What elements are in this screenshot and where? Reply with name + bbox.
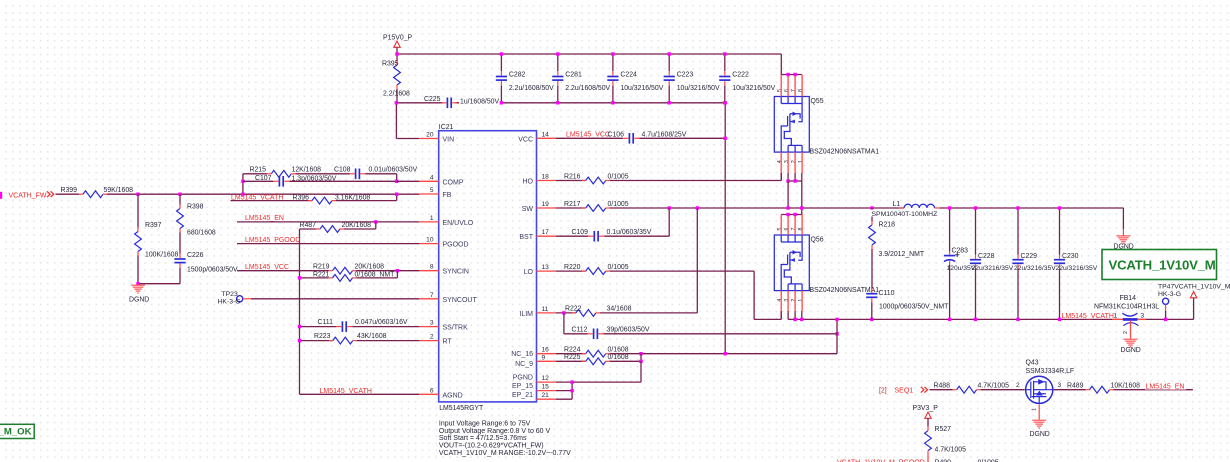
net label LM5145_EN (right) <box>1145 383 1186 390</box>
svg-text:Output Voltage Range:0.8 V to: Output Voltage Range:0.8 V to 60 V <box>439 428 551 435</box>
junction PGND riser join <box>724 352 727 355</box>
svg-text:7: 7 <box>791 89 797 92</box>
resistor R218 zigzag <box>869 225 876 245</box>
junction DGND node <box>136 282 139 285</box>
svg-text:C226: C226 <box>187 252 204 259</box>
svg-text:1: 1 <box>798 299 804 302</box>
wire NC9 b <box>610 360 641 362</box>
svg-text:1u/1608/50V: 1u/1608/50V <box>460 98 499 105</box>
wire Q55 source to SW <box>787 181 789 208</box>
wire output negative rail <box>788 318 1194 320</box>
svg-text:4: 4 <box>430 174 434 181</box>
svg-text:2: 2 <box>430 334 434 341</box>
capacitor C225 symbol <box>446 98 448 109</box>
wire VCATH rail <box>299 229 301 394</box>
wire NC9 a <box>556 360 586 362</box>
svg-text:10K/1608: 10K/1608 <box>1111 382 1141 389</box>
junction R222 riser on SW <box>696 206 699 209</box>
svg-text:RT: RT <box>443 339 453 346</box>
svg-text:5: 5 <box>430 187 434 194</box>
wire P3V3 stub <box>927 418 929 426</box>
junction C110 bottom <box>870 318 873 321</box>
wire C228 top stub <box>975 208 977 255</box>
svg-text:C225: C225 <box>424 96 441 103</box>
ground DGND (Q43) <box>1032 419 1046 421</box>
wire C112 a <box>564 333 588 335</box>
svg-text:LM5145_VCC: LM5145_VCC <box>566 131 610 138</box>
wire LO b <box>610 270 754 272</box>
junction snubber on SW <box>870 206 873 209</box>
svg-text:1000p/0603/50V_NMT: 1000p/0603/50V_NMT <box>879 304 949 311</box>
junction R397 top <box>136 193 139 196</box>
wire C110 bottom <box>871 303 873 320</box>
svg-text:2: 2 <box>791 299 797 302</box>
svg-text:BSZ042N06NSATMA1: BSZ042N06NSATMA1 <box>810 148 880 155</box>
pin 20 VIN stub <box>419 138 438 140</box>
wire C222 bottom stub <box>724 85 726 102</box>
junction Q56 src c <box>800 318 803 321</box>
svg-text:Q43: Q43 <box>1026 359 1039 366</box>
wire Q55 source/gate pin stub <box>787 152 789 173</box>
svg-text:1: 1 <box>1032 408 1038 411</box>
wire R395 to C225 node <box>396 102 443 104</box>
capacitor C106 <box>628 133 630 144</box>
svg-text:R220: R220 <box>564 264 581 271</box>
wire R527 down stub <box>927 455 929 462</box>
svg-text:10u/3216/50V: 10u/3216/50V <box>732 85 775 92</box>
wire SYNCOUT line <box>251 298 419 300</box>
svg-text:R396: R396 <box>293 194 310 201</box>
svg-text:ILIM: ILIM <box>519 311 533 318</box>
svg-text:5: 5 <box>777 227 783 230</box>
svg-text:[2]: [2] <box>879 388 887 395</box>
svg-text:NFM31KC104R1H3L: NFM31KC104R1H3L <box>1094 304 1159 311</box>
svg-text:20K/1608: 20K/1608 <box>342 222 372 229</box>
pin 8 SYNCIN stub <box>419 270 438 272</box>
svg-text:0/1005: 0/1005 <box>608 201 629 208</box>
junction EP riser join <box>639 360 642 363</box>
wire EN line <box>237 221 419 223</box>
junction EP15 <box>570 380 573 383</box>
wire NC16 b (PGND line) <box>610 353 837 355</box>
wire R218 to C110 <box>871 249 873 289</box>
svg-text:8: 8 <box>430 264 434 271</box>
svg-text:C229: C229 <box>1021 253 1038 260</box>
capacitor C108 <box>355 169 357 180</box>
svg-text:LO: LO <box>524 269 534 276</box>
svg-text:C230: C230 <box>1062 253 1079 260</box>
wire C230 top stub <box>1059 208 1061 255</box>
svg-text:VOUT=-(10.2-0.629*VCATH_FW): VOUT=-(10.2-0.629*VCATH_FW) <box>439 443 544 450</box>
ground DGND (FB14) <box>1124 338 1138 340</box>
wire Q55 drain pin stub <box>780 75 782 97</box>
svg-text:TP23: TP23 <box>222 291 238 298</box>
wire PGND to output rail <box>836 319 838 353</box>
svg-text:3: 3 <box>784 160 790 163</box>
wire R398 upper <box>179 194 181 204</box>
pin 5 FB stub <box>419 193 438 195</box>
svg-text:4.7u/1608/25V: 4.7u/1608/25V <box>642 131 687 138</box>
junction R398 top <box>178 193 181 196</box>
wire ILIM b <box>600 312 697 314</box>
junction C223 bottom <box>668 101 671 104</box>
wire C281 bottom stub <box>557 85 559 102</box>
wire C223 bottom stub <box>668 85 670 102</box>
junction C112 tee <box>562 311 565 314</box>
wire R489 to EN net <box>1114 389 1193 391</box>
svg-text:1500p/0603/50V: 1500p/0603/50V <box>187 267 238 274</box>
svg-text:8: 8 <box>798 227 804 230</box>
wire ILIM a <box>556 312 576 314</box>
junction C228 bottom <box>974 318 977 321</box>
resistor R398 zigzag <box>177 209 184 229</box>
capacitor C222 <box>719 76 730 78</box>
node VCATH_1V10V_M output box <box>1102 250 1217 280</box>
wire R397 upper <box>137 194 139 227</box>
svg-text:0.047u/0603/16V: 0.047u/0603/16V <box>355 319 408 326</box>
svg-text:R216: R216 <box>564 173 581 180</box>
junction SW at Q55 <box>786 206 789 209</box>
capacitor C224 <box>607 76 618 78</box>
junction C283 bottom <box>948 318 951 321</box>
ferrite bead FB14 body bar <box>1123 318 1138 321</box>
wire Q56 src join b <box>794 311 796 319</box>
capacitor C228 <box>970 259 981 261</box>
resistor R224 <box>586 350 606 357</box>
svg-text:2.2u/1608/50V: 2.2u/1608/50V <box>565 85 610 92</box>
pin 1 EN/UVLO stub <box>419 221 438 223</box>
ground DGND (input divider) <box>131 284 145 286</box>
resistor R395 zigzag <box>394 65 401 85</box>
pin 3 SS/TRK stub <box>419 326 438 328</box>
node VCATH_FW sheet entry <box>0 192 2 199</box>
svg-text:0.01u/0603/50V: 0.01u/0603/50V <box>369 166 418 173</box>
pin 19 SW stub <box>537 207 557 209</box>
svg-text:6: 6 <box>784 227 790 230</box>
svg-text:680/1608: 680/1608 <box>187 230 216 237</box>
svg-text:NC_9: NC_9 <box>515 361 533 368</box>
svg-text:R218: R218 <box>879 222 896 229</box>
wire Q55 src stub join b <box>794 173 796 181</box>
svg-text:17: 17 <box>542 229 550 236</box>
wire Q55 source/gate pin stub <box>780 152 782 173</box>
wire R396 riser <box>396 194 398 200</box>
svg-text:2: 2 <box>791 160 797 163</box>
wire BST a <box>556 235 588 237</box>
svg-text:SPM10040T-100MHZ: SPM10040T-100MHZ <box>872 211 938 218</box>
wire Q43 to R489 <box>1054 389 1086 391</box>
wire C112 b <box>604 333 838 335</box>
junction C283 top <box>948 206 951 209</box>
wire C283 top stub <box>949 208 951 251</box>
junction TP47 <box>1164 318 1167 321</box>
svg-text:R395: R395 <box>382 61 399 68</box>
power triangle VCATH_1V10V_M <box>1190 292 1196 298</box>
svg-text:22u/3216/35V: 22u/3216/35V <box>1056 265 1098 272</box>
resistor R527 zigzag <box>925 431 932 451</box>
resistor R396 <box>312 197 332 204</box>
svg-text:R488: R488 <box>934 382 951 389</box>
svg-text:SS/TRK: SS/TRK <box>443 325 469 332</box>
wire C224 bottom stub <box>612 85 614 102</box>
wire Q56 src join c <box>801 311 803 319</box>
svg-text:9: 9 <box>542 354 546 361</box>
wire SEQ1 to R488 <box>930 389 953 391</box>
junction Q55 drain c <box>793 73 796 76</box>
resistor R216 <box>586 177 606 184</box>
wire comp right vertical <box>396 174 398 182</box>
svg-text:LM5145_EN: LM5145_EN <box>245 215 284 222</box>
wire Q43 source drop <box>1038 404 1040 419</box>
capacitor C112 <box>593 329 595 340</box>
svg-text:VCC: VCC <box>518 136 533 143</box>
wire SSTRK right <box>352 326 419 328</box>
pin 21 EP_21 stub <box>537 398 557 400</box>
wire R487 branch right <box>344 228 376 230</box>
svg-text:3: 3 <box>784 299 790 302</box>
capacitor C111 <box>341 321 343 332</box>
svg-text:8: 8 <box>798 89 804 92</box>
capacitor C109 <box>593 231 595 242</box>
wire SSTRK left <box>300 326 337 328</box>
wire VIN bus drop to Q55 <box>780 54 782 75</box>
resistor R487 <box>320 226 340 233</box>
capacitor C230 <box>1054 259 1065 261</box>
svg-text:12K/1608: 12K/1608 <box>292 166 322 173</box>
capacitor C229 <box>1012 259 1023 261</box>
wire VCC line <box>556 137 623 139</box>
svg-text:7: 7 <box>791 227 797 230</box>
wire comp top branch c <box>366 173 397 175</box>
wire R487 branch left <box>300 228 317 230</box>
svg-text:COMP: COMP <box>443 179 464 186</box>
resistor R221 <box>333 275 353 282</box>
svg-text:HK-3-G: HK-3-G <box>218 299 241 306</box>
wire R221 branch right <box>357 277 398 279</box>
wire comp top branch b <box>295 173 349 175</box>
wire VCATH_FW to R399 <box>56 193 80 195</box>
wire rail end riser <box>1193 298 1195 320</box>
svg-text:SW: SW <box>522 206 534 213</box>
wire C223 top stub <box>668 54 670 71</box>
svg-text:VCATH_1V10V_M: VCATH_1V10V_M <box>1109 257 1216 272</box>
wire Q56 source/gate pin stub <box>794 291 796 311</box>
junction EP21 <box>570 389 573 392</box>
resistor R223 <box>333 337 353 344</box>
svg-text:1: 1 <box>798 160 804 163</box>
inductor L1 SPM10040T-100MHZ <box>904 204 934 208</box>
svg-text:C228: C228 <box>978 253 995 260</box>
junction P15V0 bus left <box>395 52 398 55</box>
wire C109 riser <box>668 208 670 236</box>
svg-text:FB14: FB14 <box>1120 295 1137 302</box>
junction C106 on riser <box>724 137 727 140</box>
svg-text:10u/3216/50V: 10u/3216/50V <box>677 85 720 92</box>
resistor R399 <box>83 191 103 198</box>
wire LO drop <box>753 271 755 319</box>
svg-text:39p/0603/50V: 39p/0603/50V <box>607 327 650 334</box>
wire Q56 src join a <box>787 311 789 319</box>
junction RT on rail <box>298 339 301 342</box>
resistor R217 <box>586 205 606 212</box>
svg-text:DGND: DGND <box>129 297 149 304</box>
svg-text:NC_16: NC_16 <box>511 351 533 358</box>
junction C282 top <box>500 52 503 55</box>
svg-text:IC21: IC21 <box>439 124 454 131</box>
pin 9 NC_9 stub <box>537 360 557 362</box>
junction R225 join <box>639 352 642 355</box>
test point TP23 <box>237 296 243 302</box>
pin 2 FB14 drop <box>1130 321 1132 339</box>
wire AGND line <box>300 393 420 395</box>
svg-text:22u/3216/35V: 22u/3216/35V <box>972 265 1014 272</box>
wire Q55 gate corner <box>780 173 782 181</box>
junction R395/VIN node <box>395 101 398 104</box>
junction C109 on SW <box>668 206 671 209</box>
wire R487 riser <box>375 222 377 229</box>
wire PGOOD line <box>237 243 419 245</box>
pin 12 PGND stub <box>537 381 557 383</box>
resistor R222 <box>576 310 596 317</box>
wire C230 bottom stub <box>1059 268 1061 319</box>
junction R221 left on rail <box>298 276 301 279</box>
junction Q56 src b <box>793 318 796 321</box>
svg-text:2: 2 <box>1123 331 1129 334</box>
svg-text:1: 1 <box>430 215 434 222</box>
resistor R489 <box>1090 386 1110 393</box>
svg-text:11: 11 <box>542 306 549 313</box>
svg-text:DGND: DGND <box>1030 431 1050 438</box>
resistor R219 <box>333 267 353 274</box>
wire R396 to FB riser <box>336 200 397 202</box>
resistor R215 <box>271 170 291 177</box>
wire C282 top stub <box>500 54 502 71</box>
svg-text:4.7K/1005: 4.7K/1005 <box>935 447 967 454</box>
wire Q55 src stub join a <box>787 173 789 181</box>
svg-text:SSM3J334R,LF: SSM3J334R,LF <box>1026 368 1075 375</box>
wire comp top branch a <box>243 173 267 175</box>
wire Q55 drain pin stub <box>794 75 796 97</box>
wire Q56 drain pin stub <box>794 215 796 236</box>
svg-text:2: 2 <box>1016 382 1020 389</box>
svg-text:C106: C106 <box>608 131 625 138</box>
svg-text:C281: C281 <box>565 71 582 78</box>
wire C281 top stub <box>557 54 559 71</box>
junction C282 bottom <box>500 101 503 104</box>
wire R395 top lead <box>396 54 398 61</box>
junction C224 top <box>611 52 614 55</box>
svg-text:R489: R489 <box>1067 382 1084 389</box>
svg-text:C224: C224 <box>620 71 637 78</box>
svg-text:4.7K/1005: 4.7K/1005 <box>978 382 1010 389</box>
wire Q56 gate corner riser <box>780 311 782 319</box>
wire R225 riser <box>640 354 642 362</box>
wire EP riser <box>640 361 642 382</box>
svg-text:C107: C107 <box>255 175 272 182</box>
wire SW a <box>556 207 586 209</box>
wire LO to Q56 gate <box>754 318 781 320</box>
pin 4 COMP stub <box>419 180 438 182</box>
wire Q56 source/gate pin stub <box>780 291 782 311</box>
node _M_OK box (left edge) <box>0 424 34 438</box>
svg-text:16: 16 <box>542 347 550 354</box>
junction C222 bottom <box>723 101 726 104</box>
capacitor C223 <box>664 76 675 78</box>
svg-text:LM5145_VCATH: LM5145_VCATH <box>1062 313 1114 320</box>
wire ground tie <box>138 283 180 285</box>
pin 10 PGOOD stub <box>419 243 438 245</box>
chevron SEQ1 <box>921 387 928 393</box>
svg-text:EP_15: EP_15 <box>512 383 533 390</box>
junction C107 left <box>241 180 244 183</box>
svg-text:2.2/1608: 2.2/1608 <box>383 91 410 98</box>
pin 18 HO stub <box>537 180 557 182</box>
wire SW to Q56 drain <box>801 181 803 215</box>
wire C226 to ground node <box>179 268 181 284</box>
junction C112 on PGND riser <box>835 332 838 335</box>
pin 11 ILIM stub <box>537 312 557 314</box>
wire R221 right riser <box>396 271 398 278</box>
wire Q56 drain pin stub <box>787 215 789 236</box>
svg-text:PGOOD: PGOOD <box>443 242 469 249</box>
wire R399 to FB line <box>107 193 419 195</box>
svg-text:BSZ042N06NSATMA1: BSZ042N06NSATMA1 <box>810 287 880 294</box>
wire EP15 line <box>556 390 572 392</box>
wire VIN feed down <box>395 103 397 139</box>
svg-text:21: 21 <box>542 392 550 399</box>
svg-text:3: 3 <box>1141 313 1145 320</box>
wire Q56 source/gate pin stub <box>787 291 789 311</box>
wire TP47 drop <box>1165 311 1167 319</box>
resistor R220 <box>586 268 606 275</box>
power triangle P15V0_P <box>394 41 400 47</box>
wire VIN feed to pin <box>396 138 419 140</box>
wire C229 top stub <box>1017 208 1019 255</box>
svg-text:R487: R487 <box>300 222 317 229</box>
svg-text:13: 13 <box>542 264 550 271</box>
svg-text:VIN: VIN <box>443 137 455 144</box>
svg-text:VCATH_1V10V_M RANGE:-10.2V~-0.: VCATH_1V10V_M RANGE:-10.2V~-0.77V <box>439 450 571 457</box>
junction SSTRK on rail <box>298 325 301 328</box>
svg-text:C112: C112 <box>572 327 588 334</box>
pin 2 RT stub <box>419 340 438 342</box>
wire PGND riser <box>724 103 726 354</box>
junction Q55 source a <box>786 179 789 182</box>
capacitor C107 <box>278 176 280 187</box>
wire R395 bottom lead <box>396 89 398 103</box>
svg-text:LM5145RGYT: LM5145RGYT <box>439 405 484 412</box>
wire R221 branch left <box>300 277 329 279</box>
wire EP21 riser <box>571 391 573 400</box>
wire VCATH to R396 <box>231 200 313 202</box>
wire C112 drop <box>563 313 565 334</box>
pin 13 LO stub <box>537 270 557 272</box>
wire SW bus <box>610 207 904 209</box>
svg-text:P3V3_P: P3V3_P <box>913 405 939 412</box>
svg-text:R224: R224 <box>564 347 581 354</box>
svg-text:R215: R215 <box>250 166 267 173</box>
wire P15V0_P stub <box>396 47 398 54</box>
wire C224 top stub <box>612 54 614 71</box>
wire HO a <box>556 180 586 182</box>
svg-text:Input Voltage Range:6 to 75V: Input Voltage Range:6 to 75V <box>439 421 531 428</box>
junction C229 top <box>1016 206 1019 209</box>
wire Q55 src stub join c <box>801 173 803 181</box>
plus mark C283 <box>955 253 959 257</box>
svg-text:C108: C108 <box>334 166 351 173</box>
svg-text:34/1608: 34/1608 <box>607 306 632 313</box>
svg-text:4: 4 <box>777 160 783 163</box>
